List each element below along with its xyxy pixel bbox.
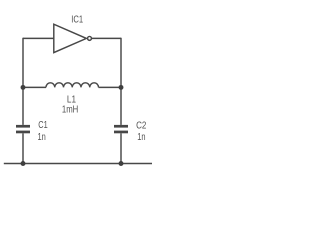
svg-text:IC1: IC1 <box>71 14 83 25</box>
node junction right-middle <box>119 85 124 90</box>
node junction bottom-left <box>21 161 26 166</box>
wire right vertical middle (junction to C2) <box>120 87 122 125</box>
wire middle left (to L1) <box>23 86 46 88</box>
inductor L1 coil <box>46 83 99 88</box>
svg-text:C1: C1 <box>38 120 48 131</box>
wire left vertical middle (junction to C1) <box>22 87 24 125</box>
svg-text:1n: 1n <box>137 132 145 143</box>
capacitor C2 top plate <box>114 125 128 128</box>
wire middle right (L1 to junction) <box>99 86 122 88</box>
inverter output bubble <box>88 36 92 40</box>
capacitor C1 top plate <box>16 125 30 128</box>
wire top rail left (input to IC1) <box>23 37 54 39</box>
wire right vertical upper <box>120 38 122 88</box>
wire left vertical upper <box>22 38 24 88</box>
svg-text:1n: 1n <box>38 132 46 143</box>
svg-text:1mH: 1mH <box>62 104 78 115</box>
svg-text:C2: C2 <box>136 120 147 131</box>
node junction left-middle <box>21 85 26 90</box>
op-amp U1 inverter triangle IC1 <box>54 24 87 52</box>
capacitor C1 bottom plate <box>16 131 30 134</box>
node junction bottom-right <box>119 161 124 166</box>
wire bottom rail (0V) <box>4 163 152 165</box>
wire right vertical lower (C2 to rail) <box>120 133 122 163</box>
capacitor C2 bottom plate <box>114 131 128 134</box>
wire top rail right (IC1 output) <box>92 37 121 39</box>
wire left vertical lower (C1 to rail) <box>22 133 24 163</box>
